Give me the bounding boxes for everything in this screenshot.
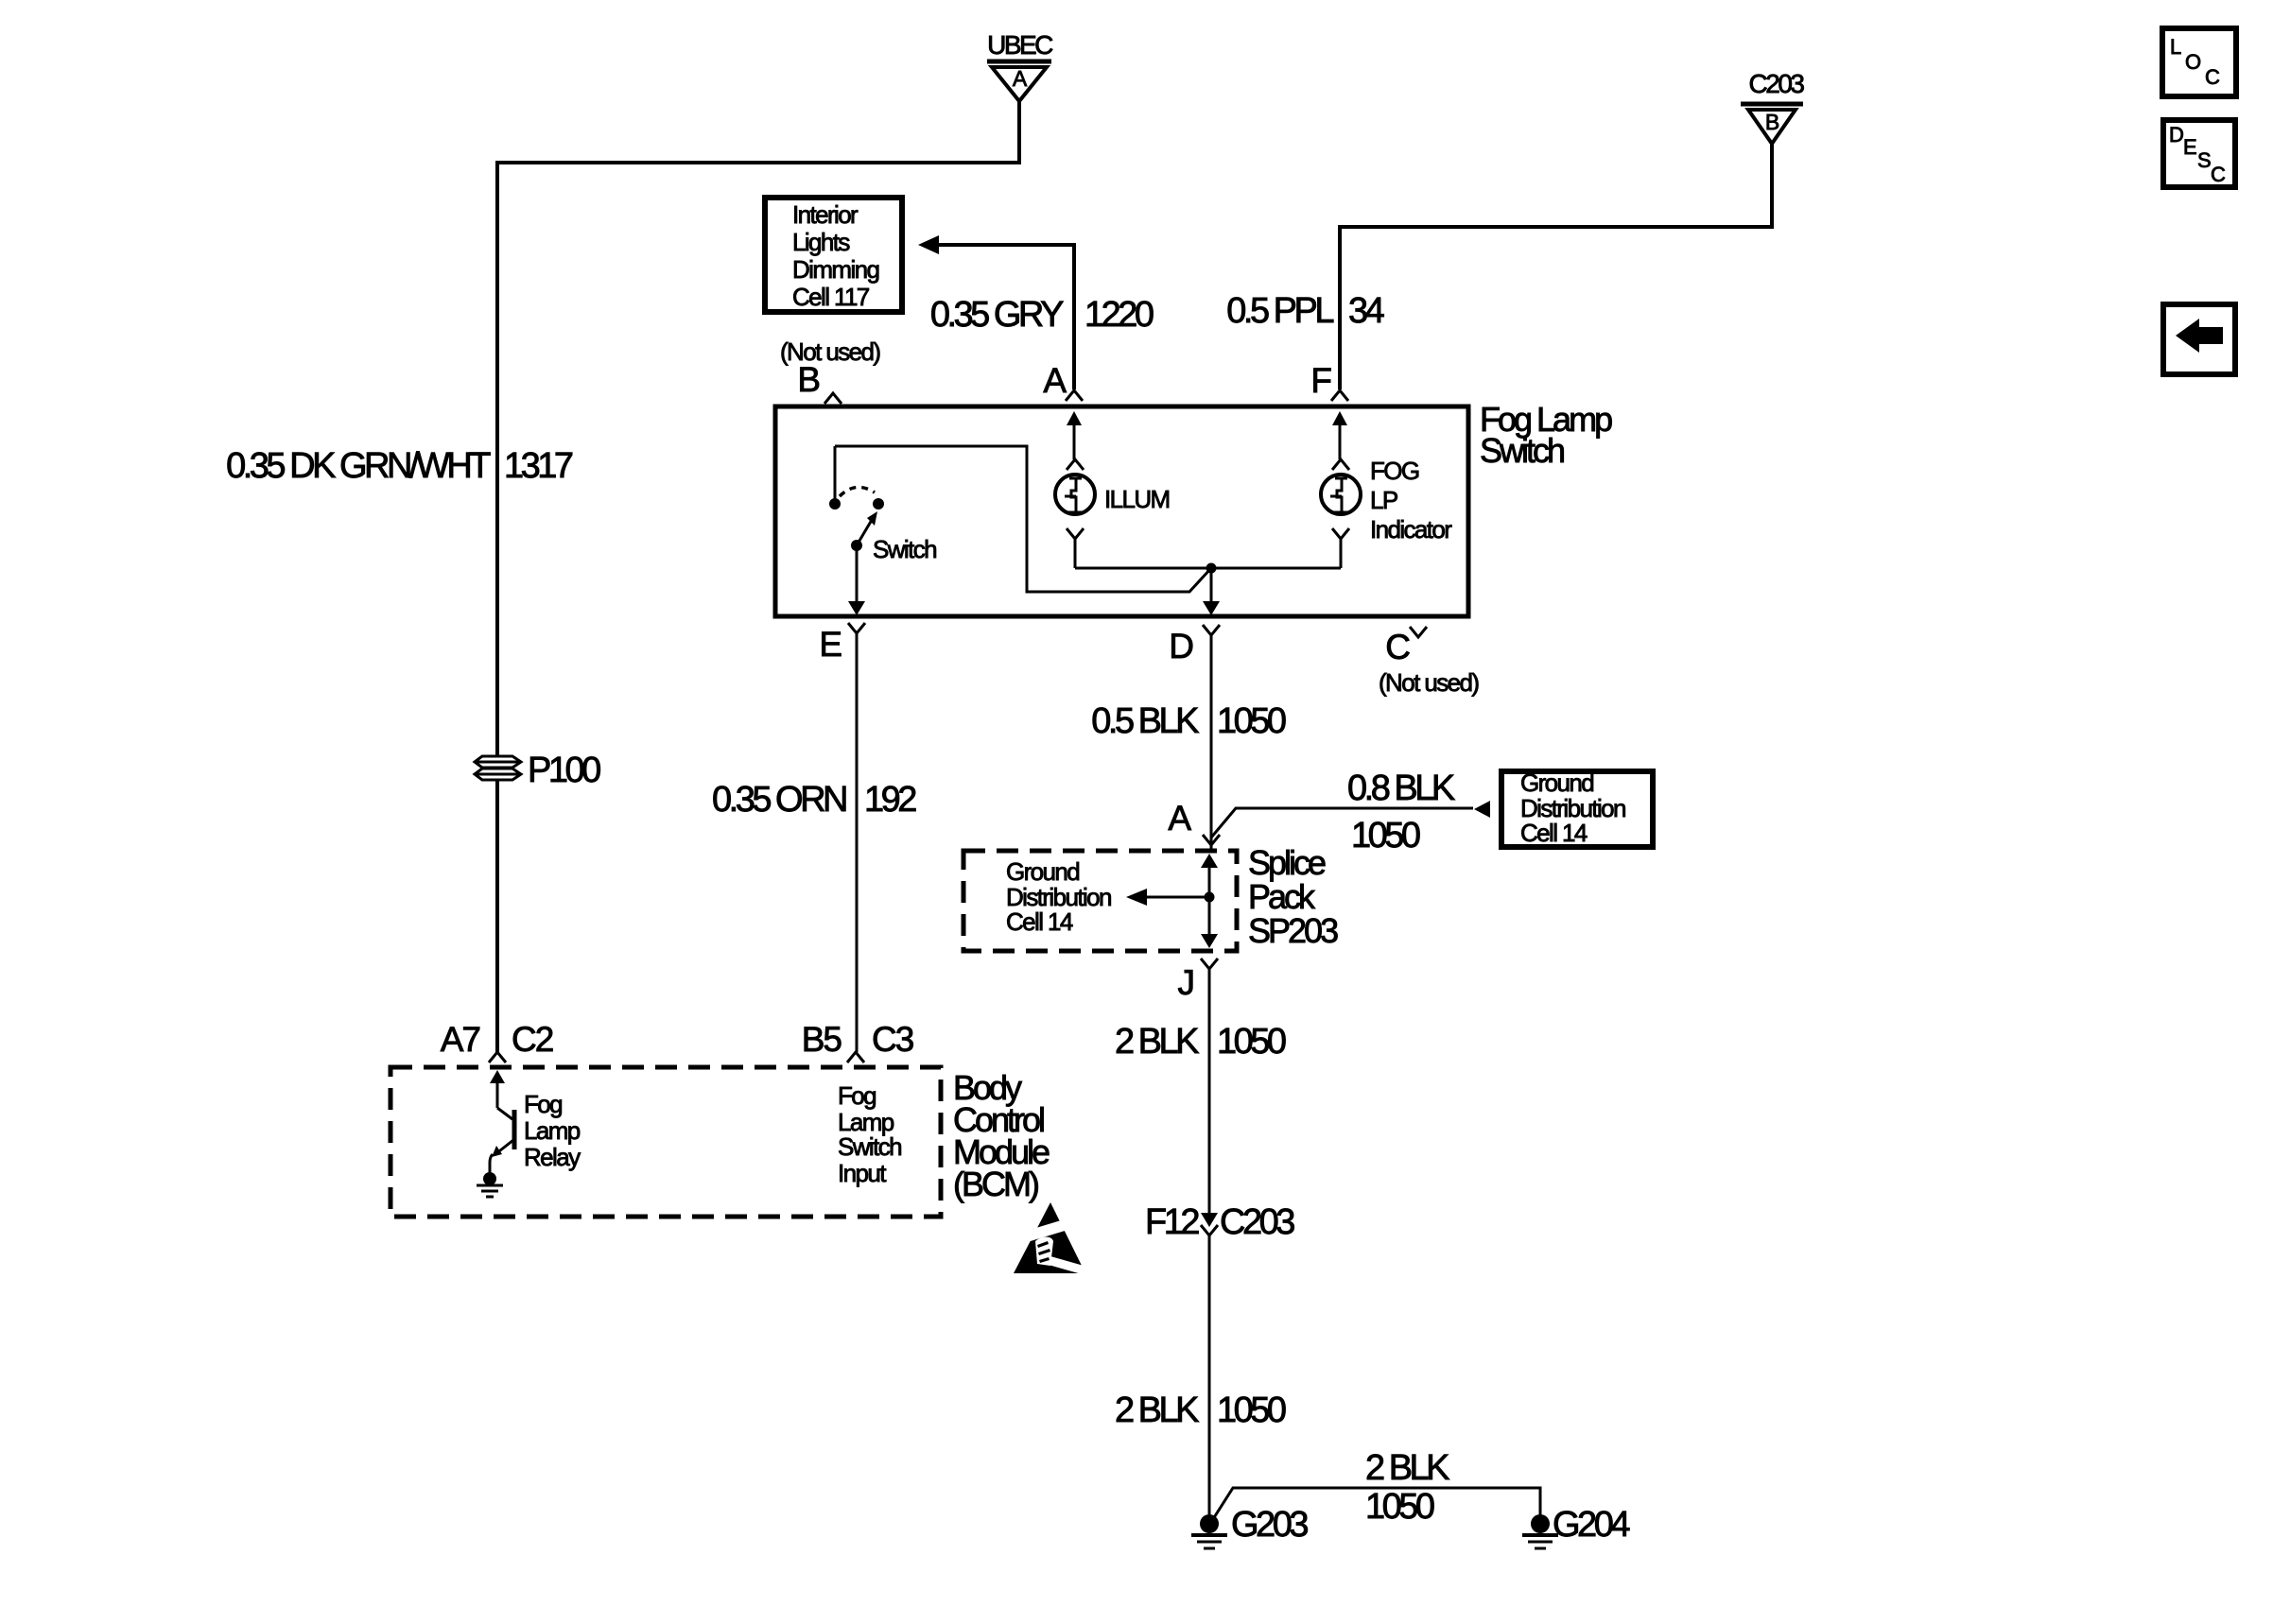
grommet P100 — [475, 751, 600, 790]
pin B5 chevron — [847, 1052, 864, 1063]
svg-text:A: A — [1043, 361, 1067, 400]
splice pack SP203 dashed box — [963, 851, 1237, 951]
box Ground Distribution Cell 14 (right) — [1501, 769, 1653, 847]
label Fog Lamp Switch Input — [838, 1081, 901, 1187]
wire pin D down to splice pack — [1210, 635, 1213, 851]
svg-text:Switch: Switch — [838, 1132, 901, 1161]
svg-text:S: S — [2197, 148, 2212, 172]
connector flag C203 B — [1741, 69, 1804, 144]
svg-text:F12: F12 — [1145, 1202, 1199, 1242]
wire switch arm down to pin E (arrow) — [848, 545, 865, 615]
wire C203 down to ground G203 — [1208, 1235, 1211, 1516]
svg-text:Ground: Ground — [1520, 769, 1593, 797]
svg-text:B: B — [797, 360, 819, 399]
svg-text:C203: C203 — [1220, 1202, 1294, 1242]
svg-text:1050: 1050 — [1217, 1391, 1286, 1430]
svg-text:SP203: SP203 — [1248, 911, 1338, 950]
svg-text:Fog: Fog — [838, 1081, 876, 1110]
svg-text:ILLUM: ILLUM — [1104, 485, 1170, 513]
svg-text:0.35 ORN: 0.35 ORN — [712, 780, 846, 820]
svg-text:Ground: Ground — [1006, 857, 1079, 886]
svg-text:Lamp: Lamp — [524, 1116, 581, 1145]
pin E chevron — [848, 623, 865, 633]
wire C203-B down, left, down to pin F — [1340, 144, 1772, 389]
svg-text:0.5 BLK: 0.5 BLK — [1091, 701, 1199, 741]
svg-text:C: C — [1385, 628, 1410, 666]
ground G204 — [1522, 1505, 1630, 1548]
svg-text:Input: Input — [838, 1159, 887, 1187]
ground (BCM internal relay emitter) — [477, 1172, 503, 1197]
label 2 BLK 1050 (ground tie) — [1365, 1448, 1449, 1527]
svg-text:B: B — [1765, 110, 1779, 134]
label 0.35 GRY 1220 — [930, 295, 1154, 335]
label Body Control Module (BCM) — [953, 1068, 1050, 1203]
svg-text:A: A — [1013, 66, 1028, 91]
wire arrow to Ground Distribution (internal) — [1126, 889, 1209, 906]
svg-text:1050: 1050 — [1365, 1487, 1434, 1527]
svg-text:0.35 GRY: 0.35 GRY — [930, 295, 1064, 335]
pin B chevron (not used) — [824, 393, 842, 404]
pin F chevron — [1331, 390, 1348, 401]
svg-text:(Not used): (Not used) — [1379, 668, 1479, 697]
svg-text:C: C — [2211, 163, 2226, 186]
pin A7 chevron — [489, 1052, 506, 1063]
svg-text:UBEC: UBEC — [987, 30, 1053, 60]
svg-text:D: D — [2169, 123, 2184, 147]
svg-text:A7: A7 — [441, 1020, 480, 1059]
ESD sensitive device symbol — [998, 1202, 1093, 1276]
svg-text:Interior: Interior — [792, 200, 859, 229]
transistor fog lamp relay driver — [490, 1070, 514, 1175]
label 2 BLK 1050 (upper) — [1115, 1022, 1286, 1062]
svg-text:2 BLK: 2 BLK — [1115, 1022, 1199, 1062]
svg-text:B5: B5 — [802, 1020, 842, 1059]
svg-text:J: J — [1178, 963, 1194, 1002]
legend box LOC — [2162, 28, 2236, 96]
node SP203 junction — [1205, 892, 1215, 903]
pin A entry arrow (inside box) — [1067, 411, 1082, 459]
label 0.5 BLK 1050 — [1091, 701, 1286, 741]
wire ground tie G203 to G204 — [1213, 1488, 1540, 1519]
pin J chevron — [1201, 959, 1218, 969]
svg-text:L: L — [2170, 35, 2181, 59]
svg-text:Lights: Lights — [792, 228, 850, 256]
wire branch to Ground Distribution Cell 14 — [1211, 808, 1473, 838]
svg-text:Fog: Fog — [524, 1090, 562, 1118]
svg-text:1050: 1050 — [1217, 1022, 1286, 1062]
svg-text:Relay: Relay — [524, 1143, 581, 1171]
wire pin E down to BCM pin B5 — [856, 633, 859, 1052]
legend box DESC — [2163, 120, 2235, 187]
svg-text:2 BLK: 2 BLK — [1115, 1391, 1199, 1430]
splice internal wire (arrows both ends) — [1201, 854, 1218, 948]
label 2 BLK 1050 (lower) — [1115, 1391, 1286, 1430]
svg-text:192: 192 — [864, 780, 916, 820]
svg-text:LP: LP — [1370, 486, 1397, 514]
label Splice Pack SP203 — [1248, 843, 1338, 950]
svg-text:Splice: Splice — [1248, 843, 1326, 882]
label 0.5 PPL 34 — [1226, 291, 1384, 331]
wire switch feed (top rail, right leg, diagonal to junction) — [835, 446, 1211, 592]
pin C chevron (not used) — [1410, 627, 1427, 637]
svg-text:C203: C203 — [1749, 69, 1805, 98]
label 0.35 DK GRN/WHT 1317 — [226, 446, 573, 486]
svg-text:FOG: FOG — [1370, 457, 1419, 485]
svg-text:2 BLK: 2 BLK — [1365, 1448, 1449, 1488]
switch S (fog lamp switch contacts) — [829, 446, 936, 563]
ground G203 — [1191, 1505, 1308, 1548]
splice pin A chevron — [1203, 835, 1220, 845]
svg-text:Switch: Switch — [1480, 431, 1564, 470]
svg-text:Switch: Switch — [873, 535, 936, 563]
svg-text:E: E — [819, 625, 842, 664]
wire junction down to pin D (arrow) — [1203, 568, 1220, 615]
svg-text:Indicator: Indicator — [1370, 515, 1452, 544]
arrowhead toward splice (ground distribution feed) — [1474, 801, 1490, 818]
svg-text:1220: 1220 — [1084, 295, 1154, 335]
svg-text:0.8 BLK: 0.8 BLK — [1347, 769, 1455, 808]
inline connector F12 C203 — [1145, 1202, 1294, 1242]
svg-text:0.5 PPL: 0.5 PPL — [1226, 291, 1333, 331]
pin F entry arrow (inside box) — [1332, 411, 1347, 459]
svg-text:1317: 1317 — [504, 446, 573, 486]
lamp FOG LP Indicator — [1321, 457, 1452, 568]
node bus junction — [1206, 563, 1217, 574]
lamp ILLUM — [1055, 459, 1170, 568]
arrowhead to Interior Lights box — [918, 235, 939, 254]
svg-text:1050: 1050 — [1351, 816, 1420, 855]
box Fog Lamp Switch — [775, 406, 1468, 616]
svg-text:O: O — [2185, 50, 2201, 74]
svg-text:Cell 117: Cell 117 — [792, 283, 870, 311]
svg-text:F: F — [1310, 361, 1331, 400]
svg-text:C: C — [2205, 65, 2220, 89]
svg-text:D: D — [1169, 627, 1192, 665]
wire J down to inline connector C203 — [1208, 969, 1211, 1214]
svg-text:34: 34 — [1348, 291, 1385, 331]
wire lamp bus — [1075, 567, 1341, 570]
wire UBEC-A down and left to DK GRN/WHT drop — [497, 102, 1019, 756]
wire P100 down to BCM pin A7 — [495, 780, 499, 1052]
legend back-arrow box — [2163, 304, 2235, 374]
svg-text:(BCM): (BCM) — [953, 1165, 1038, 1203]
svg-text:Cell 14: Cell 14 — [1520, 819, 1588, 847]
svg-text:C3: C3 — [872, 1020, 913, 1059]
box Interior Lights Dimming Cell 117 — [765, 198, 902, 312]
pin A chevron — [1066, 390, 1083, 401]
connector flag UBEC A — [987, 30, 1053, 101]
label Fog Lamp Switch — [1480, 400, 1612, 470]
svg-text:P100: P100 — [528, 751, 600, 790]
box Body Control Module dashed — [390, 1067, 941, 1217]
svg-text:C2: C2 — [512, 1020, 553, 1059]
svg-text:G203: G203 — [1231, 1505, 1308, 1545]
svg-text:E: E — [2183, 135, 2197, 159]
svg-text:Pack: Pack — [1248, 877, 1316, 916]
svg-text:Dimming: Dimming — [792, 255, 879, 284]
svg-text:(Not used): (Not used) — [780, 337, 880, 366]
svg-text:Cell 14: Cell 14 — [1006, 907, 1073, 936]
pin D chevron — [1203, 625, 1220, 635]
wire pin A up to Interior Lights arrow — [939, 245, 1074, 389]
label Fog Lamp Relay — [524, 1090, 581, 1171]
svg-text:G204: G204 — [1553, 1505, 1630, 1545]
label 0.35 ORN 192 — [712, 780, 916, 820]
svg-text:0.35 DK GRN/WHT: 0.35 DK GRN/WHT — [226, 446, 491, 486]
label 0.8 BLK 1050 — [1347, 769, 1455, 855]
svg-text:A: A — [1168, 799, 1191, 838]
label Ground Distribution Cell 14 (in dashed box) — [1006, 857, 1111, 936]
svg-text:1050: 1050 — [1217, 701, 1286, 741]
